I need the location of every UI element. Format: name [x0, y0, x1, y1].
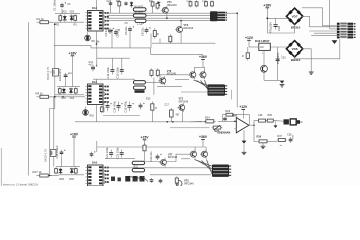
resistor R14 pill ch2 [133, 86, 145, 89]
wire R38 top [247, 47, 249, 53]
wire C19 top [275, 18, 277, 22]
capacitor C13 ch2 [106, 102, 112, 112]
pin stub column right of IC1 [105, 12, 109, 29]
svg-text:100uF/25V: 100uF/25V [59, 68, 62, 81]
connector X2 [208, 84, 228, 95]
resistor R22 pill ch3 [132, 169, 144, 172]
wire interzone stem [153, 78, 155, 95]
resistor R14 top [211, 0, 214, 7]
wire R4 down to line1 [118, 7, 120, 14]
resistor R9 row2 [36, 95, 52, 98]
svg-text:R: R [242, 55, 244, 58]
wire VT9 down [263, 72, 265, 80]
regulator DA2 LM317 box [259, 43, 271, 50]
bridge rectifier VD8 [286, 41, 302, 62]
rail +36V ch3 [199, 135, 208, 140]
resistor R13 pill ch2 [133, 81, 145, 84]
pin stub column right of IC2 [105, 86, 109, 103]
wire C6 to bottom bus [150, 33, 152, 48]
wire bridge2 right vertex [302, 49, 311, 59]
svg-text:C5 22u: C5 22u [124, 26, 128, 35]
svg-text:R26: R26 [226, 110, 231, 113]
ground arrow below opamp [242, 141, 247, 144]
svg-text:C22 220u: C22 220u [116, 147, 120, 159]
wire vertical x329.7 [329, 0, 331, 29]
fan diagonals bottom [131, 176, 138, 182]
wire left vertical bus B [50, 24, 55, 176]
rail +18V ch3 [70, 133, 79, 138]
wire +12V to opamp [242, 110, 244, 119]
transistor VT3 [175, 25, 183, 34]
svg-text:VD2: VD2 [70, 11, 75, 14]
transistor VT7 [159, 158, 166, 167]
wire psu gnd rail [264, 79, 284, 81]
wire R20 down [144, 153, 146, 162]
op-amp DA1 [236, 118, 249, 133]
wire opamp gnd stem [243, 130, 245, 140]
wire C15 top [121, 58, 123, 67]
svg-text:IRF2346: IRF2346 [167, 4, 177, 7]
wire pills to pair [146, 75, 190, 83]
svg-text:IRF2346: IRF2346 [184, 182, 194, 185]
wire ch1 cluster top rail [55, 13, 80, 15]
resistor R left of VT1 [156, 2, 159, 10]
svg-text:C17: C17 [165, 104, 170, 107]
svg-text:C23 22u: C23 22u [149, 151, 153, 162]
wire R24 to opamp [218, 120, 237, 122]
wire feed connector rows [310, 30, 338, 32]
wire ch2 pair top leads [193, 67, 195, 72]
rail +18V top [263, 3, 272, 8]
connector XS1 plug [284, 119, 289, 124]
svg-text:+36V: +36V [199, 55, 208, 59]
wire IC1 bottom to bus [96, 31, 98, 45]
rail +15V ch3 [140, 135, 149, 140]
svg-text:DA4: DA4 [92, 80, 98, 84]
wire ch2 row bottom rail [103, 115, 140, 117]
wire ch2 cluster top rail [57, 86, 80, 88]
wire feedback top [223, 115, 250, 126]
svg-text:C19: C19 [277, 26, 281, 31]
resistor R4 top [118, 0, 121, 7]
resistor R18 [55, 167, 58, 174]
capacitor C20 psu [276, 56, 280, 63]
capacitor C9 [64, 73, 70, 79]
svg-text:BXOD 0.7B: BXOD 0.7B [47, 67, 50, 80]
wire ch2 long bus y121.8 [75, 121, 206, 123]
wire +12V stem [248, 40, 250, 47]
resistor interzone A [150, 68, 153, 77]
capacitor C2 top [109, 1, 112, 6]
rail +18V ch2 [68, 51, 77, 56]
svg-text:+18V: +18V [263, 3, 272, 7]
wire +36V ch2 down [202, 60, 204, 68]
transistor VT6a [189, 150, 197, 159]
capacitor C8 [114, 29, 120, 35]
wire ch3 cluster top rail [56, 166, 80, 168]
rail +36V ch2 [199, 55, 208, 60]
svg-text:R24: R24 [205, 117, 210, 120]
diode VD2 [70, 15, 74, 22]
ground arrow mid row1 [275, 121, 277, 125]
capacitor C23 [156, 154, 162, 160]
wire ch3 pair top link [145, 154, 190, 161]
wire bus into R24 [190, 120, 202, 123]
svg-text:AD8206AN: AD8206AN [217, 130, 230, 134]
capacitor 470uF/25V bridge2 [281, 54, 283, 56]
wire cap row bottom rail [93, 78, 135, 80]
wire bridge1 right [302, 16, 337, 27]
svg-text:R36: R36 [257, 136, 262, 139]
node junction R1/bus [54, 23, 56, 25]
svg-text:+12V: +12V [239, 105, 248, 109]
wire VT3 down [180, 34, 182, 43]
wire interzone bottom [157, 85, 182, 87]
transistor VT6b [200, 150, 208, 159]
svg-text:C4 2u2: C4 2u2 [104, 27, 108, 36]
wire ch2 pair top bus [194, 66, 204, 68]
wire ch3 pair left feed [181, 158, 190, 160]
wire left vertical bus A [28, 22, 30, 175]
resistor R2 near VT1 top [195, 0, 198, 7]
node dots on R9 line [54, 96, 56, 98]
wire ch3 cap bottom rail [105, 158, 135, 160]
wire +18V ch3 stem [73, 137, 75, 167]
svg-text:C15 220u: C15 220u [116, 66, 120, 78]
svg-text:C14 470u: C14 470u [112, 100, 116, 112]
resistor R33 [257, 119, 266, 122]
transistor VT6 [158, 76, 166, 85]
resistor R21 pill ch3 [132, 161, 144, 164]
wire C5 to bottom bus [129, 32, 131, 48]
svg-text:IRF2346: IRF2346 [184, 27, 194, 30]
wire IC1 top stub [96, 0, 98, 11]
ground below R36 [261, 146, 266, 148]
capacitor C5 [128, 26, 134, 32]
wire C20 bottom [277, 63, 279, 81]
diode VD9 top [130, 1, 133, 7]
wire ch3 cluster bottom rail [59, 174, 84, 176]
wire stub C2 up [110, 0, 112, 2]
wire bridge1 bottom [294, 24, 296, 34]
resistor R38 psu [246, 51, 249, 61]
transistor VT5 [176, 181, 182, 187]
svg-text:VD3: VD3 [61, 97, 66, 100]
resistor R7 top [151, 1, 154, 8]
diode VD bottom row 2 [133, 176, 138, 182]
wire below arrow [243, 144, 245, 152]
capacitor C15 [120, 67, 124, 75]
capacitor C14 [110, 67, 114, 75]
svg-text:BR310: BR310 [291, 26, 301, 30]
wire ch2 verticals to bus [151, 112, 153, 122]
ground arrow near X4 [332, 40, 338, 44]
wire ch3 bus y167.8 [107, 167, 211, 169]
svg-text:R35: R35 [268, 114, 273, 117]
node C8 junction [111, 30, 113, 32]
diode VD bottom row 1 [125, 176, 130, 182]
wire row2 [269, 140, 278, 142]
small parts right of IC3 [111, 177, 115, 182]
wire ch2 cluster bottom rail [55, 94, 84, 96]
wire C8 vertical [111, 30, 113, 48]
potentiometer R25 [212, 126, 223, 129]
svg-text:R37: R37 [278, 135, 283, 138]
resistor ch2 row A [151, 101, 154, 112]
wire R9 right [49, 96, 86, 98]
transistor VT4b [199, 70, 207, 79]
resistor R17 row3 [36, 174, 52, 177]
capacitor C11 [91, 65, 97, 72]
resistor below VT3 [169, 34, 172, 43]
capacitor C21 [109, 150, 113, 158]
svg-text:C28: C28 [287, 134, 292, 137]
capacitor C22 [120, 150, 124, 158]
wire C9 down [65, 79, 67, 87]
input jack ch3 [51, 150, 57, 157]
resistor bottom right small [175, 176, 178, 184]
wire bridge2 bottom right [295, 39, 340, 59]
svg-text:+18V: +18V [68, 51, 77, 55]
node bus dots [167, 121, 169, 123]
transistor VT9 psu [261, 65, 268, 72]
wire to bridge1 left [267, 17, 287, 19]
junction dots ch1 bus [166, 17, 168, 19]
diode VD5 [59, 168, 63, 174]
ground bars below opamp [242, 152, 247, 154]
resistor R11 [74, 87, 77, 94]
op-amp IC U2 DIP [86, 84, 106, 105]
wire VT1 down [166, 15, 168, 18]
resistor R13 top [205, 0, 208, 7]
wire ch1 bus line2 [107, 15, 210, 17]
wire ch1 bottom bus segA [54, 44, 91, 46]
wire vertical x96.8 ch3 [96, 141, 98, 152]
wire ch2 pair left feed [175, 78, 189, 80]
resistor R1 [36, 21, 52, 24]
diode VD4 [69, 88, 73, 95]
svg-text:VD4: VD4 [70, 97, 75, 100]
svg-text:IRF2346: IRF2346 [167, 73, 177, 76]
capacitor C15b ch2 [128, 102, 134, 112]
connector X3 [212, 165, 231, 177]
rail +12V [239, 105, 248, 110]
svg-text:IRF2346: IRF2346 [179, 100, 189, 103]
svg-text:C8 2u2: C8 2u2 [116, 28, 120, 37]
wire C14 top [111, 58, 113, 67]
wire interzone top [151, 48, 203, 54]
svg-text:+12V: +12V [245, 36, 254, 40]
capacitor C3 top extra [124, 1, 127, 5]
connector X2 fan wires [194, 80, 210, 86]
svg-text:DA2 LM317: DA2 LM317 [255, 39, 270, 43]
svg-text:DA5: DA5 [92, 161, 98, 165]
wire C1 down [61, 9, 63, 14]
capacitor C28 [289, 137, 293, 143]
svg-text:C6 22u: C6 22u [141, 27, 145, 36]
wire VD9 down [131, 6, 133, 9]
svg-text:470u/25V: 470u/25V [268, 22, 272, 34]
resistor R36 [257, 140, 268, 143]
svg-text:C14 220u: C14 220u [106, 66, 110, 78]
svg-text:R9 1k: R9 1k [36, 91, 44, 95]
wire R36 gnd stub [262, 143, 264, 146]
resistor R9b [153, 28, 156, 38]
op-amp IC U3 DIP [86, 165, 106, 186]
transistor VT4a [188, 70, 196, 79]
wire C2 down to line1 [110, 5, 112, 13]
wire VT3 up [180, 21, 182, 25]
wire LM317 bottom pin [263, 50, 265, 65]
wire +36V ch3 down [202, 140, 204, 147]
wire ch1 bus line3 [107, 17, 210, 19]
svg-text:R: R [157, 33, 159, 36]
svg-text:DA1: DA1 [232, 113, 238, 117]
svg-text:LM: LM [260, 46, 263, 49]
svg-text:C15 470u: C15 470u [123, 100, 127, 112]
svg-text:4k7: 4k7 [176, 114, 181, 117]
resistor R7 pill [135, 19, 146, 22]
diode VD3 [62, 88, 66, 95]
capacitor C19 above IC3 [90, 151, 96, 157]
bridge rectifier VD7 [286, 8, 302, 29]
wire +15V stem [144, 140, 146, 145]
wire cap row top rail [97, 57, 130, 59]
wire C18 down [61, 157, 63, 167]
resistor R2 [59, 14, 62, 22]
wire ch2 second bus y127.8 [170, 127, 210, 129]
wire LM317 left pin [249, 46, 259, 48]
svg-text:R15: R15 [146, 98, 151, 101]
svg-text:R1 1k: R1 1k [37, 17, 45, 21]
wire row1 to plug [274, 120, 284, 123]
wire R1 to bus [49, 21, 55, 23]
capacitor C1 [60, 2, 66, 8]
svg-text:BXOD 0.7B: BXOD 0.7B [45, 149, 48, 162]
resistor R10 [58, 87, 61, 94]
svg-text:IRF2346: IRF2346 [168, 156, 178, 159]
wire long vertical x237 [236, 13, 238, 107]
wire ch3 cap row top rail [97, 146, 206, 148]
svg-text:VD5: VD5 [59, 178, 64, 181]
wire C20 top [277, 47, 279, 57]
wire R7 down [152, 7, 154, 14]
transistor VT1 [161, 6, 169, 15]
wire feedback down [254, 125, 257, 141]
resistor interzone B [156, 68, 159, 77]
wire ch3 pair top leads [194, 147, 196, 151]
wire bridge2 down to gnd [310, 59, 312, 72]
svg-text:C20: C20 [281, 57, 286, 60]
resistor R20 vertical [143, 143, 146, 152]
connector X1 [210, 11, 227, 21]
svg-text:C26: C26 [258, 114, 263, 117]
wire IC2 bottom down [96, 105, 98, 122]
ground right [309, 72, 314, 74]
svg-text:+15V: +15V [140, 135, 149, 139]
capacitor C14b ch2 [117, 102, 123, 112]
svg-text:VD7: VD7 [292, 15, 298, 19]
svg-text:R17 1k: R17 1k [33, 170, 42, 174]
transistor VT2 [177, 103, 184, 112]
wire R9b to bottom bus [159, 39, 161, 44]
svg-text:shemu.ru | 2-kanal UMZCH: shemu.ru | 2-kanal UMZCH [3, 183, 38, 186]
svg-text:+18V: +18V [70, 133, 79, 137]
wire vertical x53.8 lower [53, 97, 55, 167]
svg-text:C21 220u: C21 220u [105, 147, 109, 159]
wire ch1 cluster bottom rail [55, 21, 84, 23]
pin stub column right of IC3 [105, 167, 109, 183]
node opamp input [234, 121, 236, 123]
capacitor C19 PSU [274, 22, 278, 30]
node +18V junction [266, 17, 268, 19]
wire x237 top link [225, 12, 237, 14]
resistor R24 [204, 120, 216, 123]
svg-text:R21: R21 [134, 166, 139, 169]
wire IC2 top stub [96, 79, 98, 84]
op-amp IC U1 DIP [86, 11, 106, 32]
wire ch1 bottom bus segC [152, 42, 215, 44]
diode VD10 top [157, 1, 160, 7]
wire ch1 bus line1 [107, 12, 210, 14]
wire ch1 bus line4 [107, 20, 210, 22]
svg-text:470u/25V: 470u/25V [276, 52, 280, 64]
svg-text:C1 100u/25V: C1 100u/25V [53, 0, 57, 11]
svg-text:C13 470u: C13 470u [101, 100, 105, 112]
resistor R below IC2 [100, 105, 103, 113]
resistor R6 pill [133, 14, 146, 17]
wire faint x231 [230, 90, 232, 100]
resistor R19 [74, 167, 77, 174]
wire stub R4 up [118, 0, 120, 1]
transistor VT7 below IC1 [85, 32, 91, 41]
diode VD1 [63, 15, 67, 22]
wire +18V down [266, 8, 268, 33]
svg-text:4u7: 4u7 [89, 64, 94, 67]
connector X3 fan wires [195, 160, 213, 167]
svg-text:R16: R16 [90, 115, 95, 118]
svg-text:R: R [155, 107, 157, 110]
transistor VT8 below IC2 [83, 107, 89, 116]
left edge line [0, 148, 2, 186]
resistor R26 small [226, 113, 233, 116]
capacitor C16 [139, 103, 145, 110]
capacitor C6 [145, 27, 151, 33]
wire psu bottom rail1 [267, 32, 294, 34]
input jack ch2 [50, 69, 59, 77]
resistor R34 [266, 119, 274, 122]
dark base ch2 pills [135, 90, 145, 93]
resistor R near VT1 top [189, 0, 192, 7]
wire +18V down [72, 56, 74, 87]
resistor ch2 row C [170, 108, 174, 119]
capacitor C4 [108, 28, 114, 34]
wire vertical x96.8 [96, 45, 98, 67]
diode VD bottom row 3 [140, 176, 145, 182]
wire R17 right [49, 175, 59, 177]
wire ch1 bus jog [90, 45, 92, 48]
wire LM317 right pin to bridge2 [270, 46, 287, 48]
capacitor bottom near 150 [150, 178, 154, 183]
svg-text:VD1: VD1 [62, 11, 67, 14]
connector X4 [337, 23, 356, 39]
wire ch1 bottom bus segB [91, 47, 151, 49]
svg-text:+36V: +36V [199, 135, 208, 139]
wire opamp out [249, 124, 254, 126]
wire top loop [302, 8, 337, 26]
resistor R5 pill [133, 8, 146, 11]
rail +12V psu [245, 36, 254, 41]
